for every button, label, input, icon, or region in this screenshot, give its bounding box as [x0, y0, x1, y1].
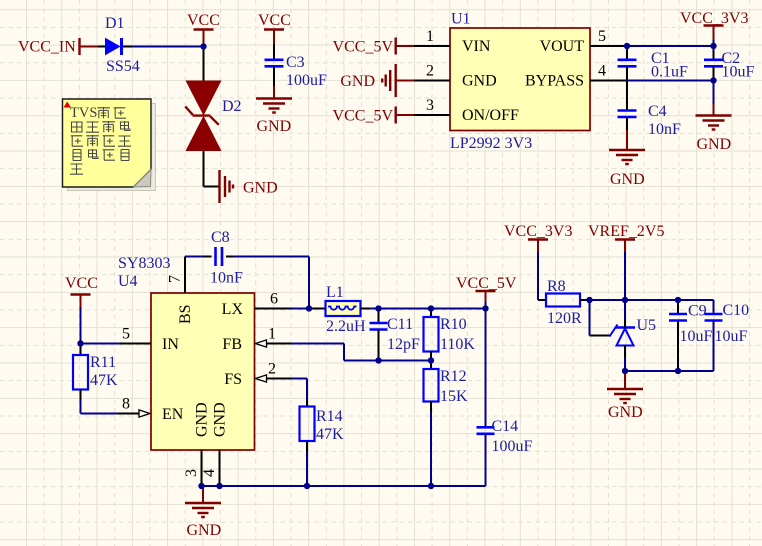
svg-text:1: 1: [426, 28, 434, 45]
pin 6 LX: [255, 308, 291, 310]
svg-text:D2: D2: [222, 98, 242, 115]
pin 5 VOUT: [590, 45, 627, 47]
pin 2 GND: [414, 80, 450, 82]
svg-text:BYPASS: BYPASS: [525, 73, 584, 90]
svg-text:1: 1: [268, 326, 276, 343]
pin 7 BS: [184, 257, 186, 294]
svg-text:GND: GND: [697, 136, 732, 153]
svg-text:GND: GND: [610, 171, 645, 188]
resistor R12 15K: [430, 361, 432, 370]
svg-text:6: 6: [270, 291, 278, 308]
svg-text:10uF: 10uF: [722, 64, 755, 81]
wire BYPASS net: [627, 80, 714, 82]
svg-text:R12: R12: [440, 368, 467, 385]
op-amp U1 body (LP2992 regulator): [450, 28, 590, 131]
pin 2 FS: [256, 375, 267, 382]
wire R14 to gnd bus: [306, 452, 308, 486]
svg-text:5: 5: [598, 28, 606, 45]
svg-text:VCC_3V3: VCC_3V3: [504, 223, 572, 240]
capacitor C3 100uF: [265, 58, 284, 61]
pin 4 GND: [219, 450, 221, 486]
svg-text:C10: C10: [723, 302, 750, 319]
svg-text:7: 7: [167, 275, 184, 283]
svg-text:4: 4: [598, 63, 606, 80]
svg-text:GND: GND: [212, 402, 229, 437]
capacitor C10 10uF: [713, 300, 715, 314]
svg-text:ON/OFF: ON/OFF: [462, 107, 519, 124]
note sticky body: [63, 99, 152, 187]
wire R8 to VREF node: [590, 299, 714, 301]
svg-text:100uF: 100uF: [286, 72, 327, 89]
wire BYPASS to C4: [626, 81, 628, 111]
resistor R14 47K: [306, 399, 308, 407]
svg-text:10nF: 10nF: [648, 121, 681, 138]
svg-text:VCC_5V: VCC_5V: [456, 275, 517, 292]
node VOUT junction at C1: [624, 43, 630, 49]
svg-text:5: 5: [122, 326, 130, 343]
svg-text:47K: 47K: [316, 426, 344, 443]
svg-text:VCC: VCC: [258, 12, 291, 29]
svg-text:C4: C4: [648, 103, 667, 120]
ground below C3: [256, 97, 292, 99]
capacitor C4 10nF: [618, 109, 637, 112]
svg-text:12pF: 12pF: [387, 336, 420, 353]
svg-text:3: 3: [183, 469, 200, 477]
svg-text:C11: C11: [387, 316, 413, 333]
svg-text:U4: U4: [118, 273, 138, 290]
wire FS to R14: [291, 378, 307, 380]
svg-text:10nF: 10nF: [210, 270, 243, 287]
svg-text:C14: C14: [492, 418, 519, 435]
resistor R11 47K: [80, 344, 82, 356]
svg-text:8: 8: [122, 396, 130, 413]
wire VCC_3V3 to R8: [537, 252, 539, 300]
svg-text:10uF: 10uF: [680, 328, 713, 345]
wire VREF to U5 cathode: [624, 300, 626, 319]
wire C8 to LX node: [233, 256, 309, 258]
ground (sideways) for D2: [218, 170, 220, 203]
svg-text:GND: GND: [608, 404, 643, 421]
svg-text:2: 2: [268, 361, 276, 378]
svg-text:LX: LX: [222, 301, 244, 318]
svg-text:U1: U1: [451, 11, 471, 28]
svg-text:BS: BS: [177, 304, 194, 324]
svg-text:FS: FS: [224, 371, 242, 388]
node VCC junction: [200, 43, 206, 49]
wire C2 to GND: [713, 81, 715, 105]
note text row2: [72, 122, 83, 132]
svg-text:R8: R8: [547, 278, 566, 295]
svg-text:LP2992 3V3: LP2992 3V3: [450, 135, 532, 152]
svg-text:3: 3: [426, 97, 434, 114]
wire U5 anode to gnd bus: [624, 346, 626, 358]
svg-text:VOUT: VOUT: [540, 38, 585, 55]
note text row4: [73, 150, 81, 161]
op-amp U4 body (SY8303): [151, 293, 255, 450]
wire D1 cathode to VCC node: [123, 46, 132, 48]
junction dots overlay: [200, 43, 206, 49]
svg-text:0.1uF: 0.1uF: [651, 64, 688, 81]
svg-text:TVS: TVS: [70, 105, 97, 121]
svg-text:VCC_IN: VCC_IN: [18, 39, 76, 56]
svg-text:D1: D1: [105, 15, 125, 32]
svg-text:GND: GND: [243, 180, 278, 197]
svg-text:110K: 110K: [440, 336, 475, 353]
node LX junction: [306, 305, 312, 311]
capacitor C14 100uF: [485, 309, 487, 428]
svg-text:100uF: 100uF: [492, 438, 533, 455]
note sticky shadow sheet: [68, 104, 156, 191]
svg-text:GND: GND: [194, 402, 211, 437]
ground below C4: [609, 149, 645, 151]
capacitor C8 10nF: [214, 247, 217, 266]
svg-text:GND: GND: [462, 73, 497, 90]
svg-text:R10: R10: [440, 316, 467, 333]
pin 5 IN: [120, 343, 151, 345]
svg-text:L1: L1: [326, 284, 344, 301]
pin 3 GND: [201, 450, 203, 486]
resistor R10 110K: [430, 309, 432, 318]
svg-text:SY8303: SY8303: [118, 255, 170, 272]
svg-text:VREF_2V5: VREF_2V5: [588, 223, 664, 240]
pin 3 ON/OFF: [414, 114, 450, 116]
wire L1 to VCC_5V: [361, 308, 370, 310]
svg-text:IN: IN: [162, 336, 179, 353]
svg-text:VCC_5V: VCC_5V: [333, 39, 394, 56]
wire lower bus to C10: [625, 370, 714, 372]
capacitor C1 0.1uF: [626, 46, 628, 59]
wire VOUT to VCC_3V3 column: [627, 45, 714, 47]
svg-text:GND: GND: [187, 522, 222, 539]
ground below U5: [624, 371, 626, 389]
resistor R8 120R: [546, 294, 580, 307]
capacitor C11 12pF: [378, 309, 380, 323]
svg-text:2.2uH: 2.2uH: [326, 318, 366, 335]
svg-text:10uF: 10uF: [715, 328, 748, 345]
svg-text:VCC: VCC: [65, 275, 98, 292]
diode D1 SS54: [106, 39, 120, 55]
svg-text:C3: C3: [286, 54, 305, 71]
node R8/U5 junction: [586, 297, 592, 303]
svg-text:VIN: VIN: [462, 38, 491, 55]
inductor L1 2.2uH: [311, 308, 326, 310]
shunt reference U5: [610, 325, 618, 337]
capacitor C9 10uF: [677, 300, 679, 314]
note marker triangle: [64, 102, 72, 108]
wire VCC_IN to D1 anode: [98, 46, 106, 48]
wire VCC node down to D2: [203, 47, 205, 82]
svg-text:FB: FB: [222, 336, 242, 353]
note text row5: [70, 164, 83, 174]
svg-text:R11: R11: [90, 354, 116, 371]
ground below C2: [696, 114, 732, 116]
pin 1 FB: [256, 340, 267, 347]
TVS diode D2: [186, 81, 222, 116]
wire U5 ref branch: [589, 300, 591, 336]
note text row3: [71, 136, 83, 146]
svg-text:VCC_5V: VCC_5V: [333, 108, 394, 125]
wire VCC to C3: [273, 44, 275, 59]
svg-text:C9: C9: [688, 303, 707, 320]
ground below U4: [202, 486, 204, 503]
svg-text:EN: EN: [162, 406, 184, 423]
capacitor C2 10uF: [713, 46, 715, 59]
node VCC/IN junction: [77, 340, 83, 346]
svg-text:R14: R14: [316, 408, 343, 425]
pin 1 VIN: [414, 45, 450, 47]
svg-text:120R: 120R: [547, 310, 582, 327]
wire R11 to EN: [80, 400, 82, 414]
pin 4 BYPASS: [590, 80, 627, 82]
wire D2 to ground: [203, 151, 205, 187]
wire VCC node to IN: [81, 343, 121, 345]
svg-text:2: 2: [426, 63, 434, 80]
svg-text:VCC: VCC: [187, 12, 220, 29]
svg-text:GND: GND: [257, 118, 292, 135]
wire FB net: [291, 343, 344, 345]
svg-text:SS54: SS54: [106, 58, 140, 75]
svg-text:GND: GND: [340, 73, 375, 90]
wire BS to C8: [185, 256, 204, 258]
wire ground bus: [202, 485, 486, 487]
pin 8 EN: [118, 413, 140, 415]
svg-text:15K: 15K: [440, 388, 468, 405]
wire R12 to gnd bus: [430, 402, 432, 413]
svg-text:U5: U5: [637, 317, 657, 334]
wire C3 to GND: [273, 67, 275, 86]
svg-text:C8: C8: [211, 229, 230, 246]
svg-text:47K: 47K: [90, 372, 118, 389]
svg-text:4: 4: [201, 469, 218, 477]
